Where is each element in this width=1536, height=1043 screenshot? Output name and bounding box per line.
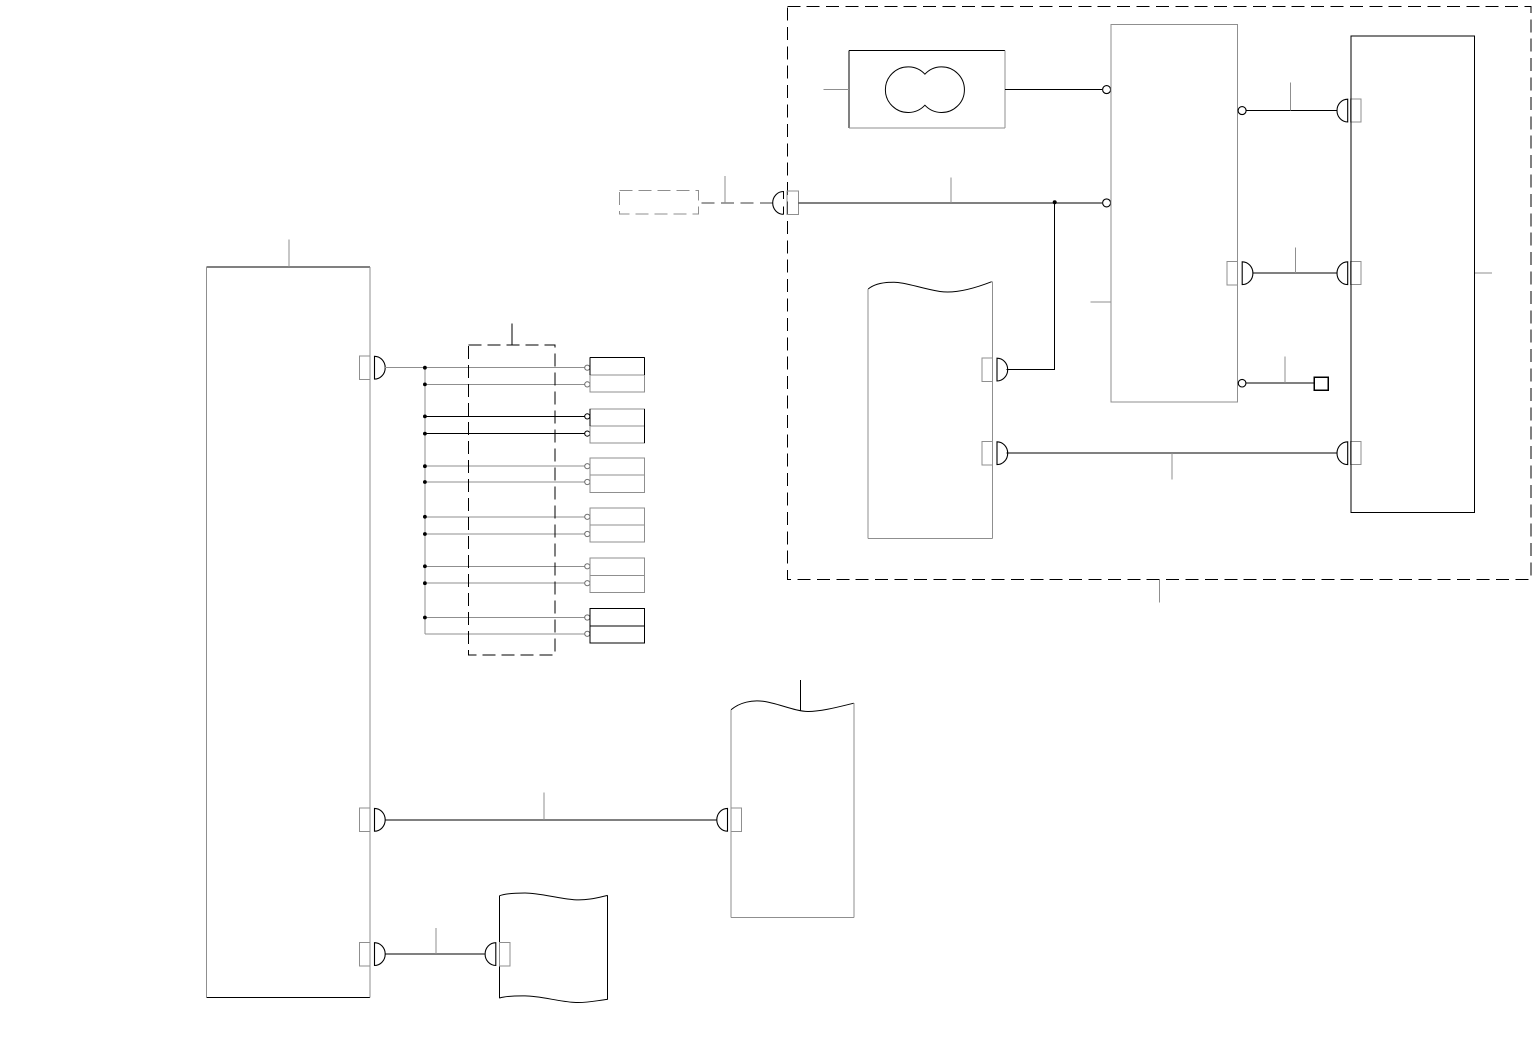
- junction on main feed wire: [1053, 200, 1057, 204]
- junction dot 7 on bus: [423, 515, 427, 519]
- dashed component: connector from other sheet: [620, 191, 699, 214]
- fuse F4 (double cartridge box): [590, 508, 645, 542]
- wire stub on C2 wire: [543, 792, 545, 820]
- branch wire 2 to fuse pin: [425, 382, 590, 387]
- wire stub on main feed wire: [950, 178, 952, 203]
- bus wire (vertical feed): [424, 368, 426, 634]
- connector C3 on junction block right edge (to body harness): [360, 942, 386, 966]
- branch wire 8 to fuse pin: [425, 531, 590, 536]
- wire: C1 to fuse bus: [385, 367, 425, 369]
- junction dot 9 on bus: [423, 564, 427, 568]
- wire: C2 to instrument panel harness: [385, 819, 716, 821]
- junction dot 3 on bus: [423, 415, 427, 419]
- wire stub on C3 wire: [435, 928, 437, 954]
- main feed wire: [798, 202, 1102, 204]
- junction dot 4 on bus: [423, 432, 427, 436]
- wire: lamp to control module: [1005, 89, 1102, 91]
- wire: module pin C to lamp assembly: [1247, 110, 1338, 112]
- connector C7 on lamp assembly (top): [1337, 99, 1361, 122]
- connector C11 on engine harness (bottom): [982, 441, 1008, 465]
- dashed wire to harness boundary: [698, 202, 773, 204]
- junction dot 6 on bus: [423, 480, 427, 484]
- pin circle: module pin B: [1103, 199, 1111, 207]
- wire stub on pin D wire: [1284, 357, 1286, 384]
- branch wire 7 to fuse pin: [425, 514, 590, 519]
- junction dot 10 on bus: [423, 581, 427, 585]
- wire stub below harness boundary: [1159, 580, 1161, 603]
- fuse F3 (double cartridge box): [590, 458, 645, 492]
- component U1: control module (large box): [1111, 25, 1238, 402]
- branch wire 4 to fuse pin: [425, 431, 590, 436]
- wire stub left of control module: [1090, 301, 1111, 303]
- connector C5 on body harness: [485, 942, 510, 966]
- wire stub on pin C wire: [1289, 82, 1291, 110]
- component M1: fuse/relay junction block (left tall box): [207, 267, 371, 998]
- wire stub on dashed wire: [724, 176, 726, 203]
- fuse block dashed boundary: [468, 345, 555, 655]
- pin circle: module pin A: [1103, 86, 1111, 94]
- pin circle: module pin D: [1238, 379, 1246, 387]
- fuse F6 (double cartridge box): [590, 609, 645, 643]
- component E1: lamp load box: [849, 50, 1005, 128]
- terminal square: [1314, 377, 1328, 390]
- wire stub above instrument panel harness: [799, 680, 801, 711]
- junction dot 11 on bus: [423, 616, 427, 620]
- branch wire 10 to fuse pin: [425, 581, 590, 586]
- connector C4 on instrument panel harness: [717, 808, 742, 832]
- component E2: lamp assembly (right tall box): [1351, 36, 1474, 512]
- wire: C3 to body harness: [385, 953, 484, 955]
- fuse F5 (double cartridge box): [590, 558, 645, 592]
- branch wire: junction down to harness connector: [1007, 203, 1055, 370]
- connector C1 on junction block right edge (fuse feed): [360, 356, 386, 380]
- branch wire 1 to fuse pin: [425, 365, 590, 370]
- component M4: engine harness (torn-edge box, inside region): [868, 282, 992, 539]
- wire: C8 to lamp assembly: [1253, 272, 1337, 274]
- branch wire 12 to fuse pin: [425, 631, 590, 636]
- fuse F1 (double cartridge box): [590, 358, 645, 392]
- component M3: body harness (torn-edge box): [499, 893, 607, 1003]
- connector C12 on lamp assembly (bottom): [1337, 442, 1361, 465]
- wire stub right of lamp assembly: [1475, 272, 1492, 274]
- lamp filament symbol (dual circles): [885, 67, 964, 113]
- branch wire 6 to fuse pin: [425, 479, 590, 484]
- branch wire 3 to fuse pin: [425, 414, 590, 419]
- wire stub on C11 wire: [1171, 453, 1173, 479]
- junction dot 1 on bus: [423, 366, 427, 370]
- pin circle: module pin C: [1238, 107, 1246, 115]
- junction dot 5 on bus: [423, 464, 427, 468]
- connector C6 at harness boundary: [773, 191, 799, 215]
- component M2: instrument panel harness (torn-edge box): [731, 701, 854, 917]
- wire stub on C8 wire: [1294, 247, 1296, 273]
- wire stub above fuse block: [511, 323, 513, 344]
- wire: module pin D to terminal: [1246, 382, 1314, 384]
- connector C9 on lamp assembly (middle): [1337, 262, 1361, 285]
- branch wire 5 to fuse pin: [425, 464, 590, 469]
- junction dot 2 on bus: [423, 383, 427, 387]
- junction dot 8 on bus: [423, 532, 427, 536]
- wire stub left of lamp box: [823, 89, 849, 91]
- fuse F2 (double cartridge box): [590, 409, 645, 443]
- branch wire 11 to fuse pin: [425, 615, 590, 620]
- harness region dashed boundary: [787, 6, 1531, 579]
- connector C2 on junction block right edge (to instrument harness): [360, 808, 386, 832]
- connector C10 on engine harness (top): [982, 358, 1008, 382]
- branch wire 9 to fuse pin: [425, 564, 590, 569]
- wire: C11 to lamp assembly: [1007, 452, 1337, 454]
- connector C8 on control module (right edge): [1227, 262, 1253, 286]
- wire stub above junction block: [288, 240, 290, 268]
